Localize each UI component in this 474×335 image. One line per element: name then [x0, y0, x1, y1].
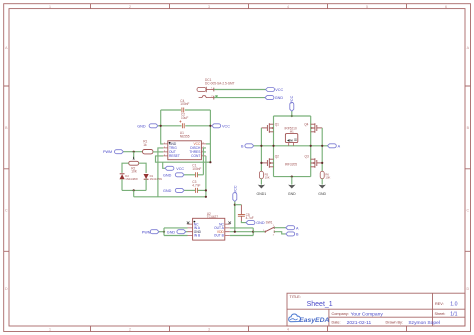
svg-text:VCC: VCC — [176, 167, 184, 171]
svg-text:3: 3 — [164, 150, 165, 152]
wire pot right lead — [139, 163, 146, 173]
svg-text:Your Company: Your Company — [351, 312, 384, 318]
svg-text:1N4148W: 1N4148W — [150, 177, 163, 181]
transistor Q1 IRF5210 — [261, 123, 279, 133]
net flag A at bridge — [327, 144, 340, 149]
svg-text:Sheet_1: Sheet_1 — [307, 301, 333, 308]
svg-text:GND: GND — [288, 192, 296, 196]
svg-text:VCC: VCC — [222, 124, 230, 128]
diode D2 1N4148W — [120, 174, 139, 181]
junction switch column — [252, 231, 254, 233]
wire bridge top rail — [274, 115, 311, 117]
svg-text:10uF: 10uF — [181, 116, 188, 120]
net flag VCC below RESET rail — [163, 162, 185, 171]
net flag GND left of C1 — [163, 173, 184, 178]
capacitor C3 — [192, 180, 200, 193]
junction VCC and RESET rail — [209, 161, 211, 163]
ground under R6 — [318, 179, 326, 196]
junction C3 CONT — [205, 189, 207, 191]
junction VCC joins VDD rail — [234, 231, 236, 233]
svg-text:Q3: Q3 — [305, 155, 309, 159]
net flag GND to U2 GND pin — [167, 230, 188, 235]
svg-text:1: 1 — [49, 328, 51, 332]
IC U1 NE555 — [163, 131, 206, 160]
wire right gate column — [321, 128, 323, 171]
svg-text:CONT: CONT — [191, 154, 200, 158]
wire VCC right vertical rail — [209, 110, 211, 162]
junction left gate mid — [260, 145, 262, 147]
net flag PWM at U2 — [142, 230, 159, 235]
wire bridge left vertical — [273, 116, 275, 177]
svg-text:4: 4 — [287, 328, 289, 332]
svg-text:1: 1 — [273, 225, 274, 227]
wire VCC branch to C5 — [235, 204, 242, 206]
wire switch throw2 to B — [274, 232, 286, 234]
svg-text:VCC: VCC — [233, 185, 237, 193]
svg-text:GND: GND — [163, 189, 172, 193]
wire diode bottom rail — [122, 189, 146, 191]
capacitor C5 — [238, 213, 254, 220]
svg-text:4.7nF: 4.7nF — [192, 184, 200, 188]
svg-text:D: D — [466, 287, 469, 291]
junction timing rail right — [205, 196, 207, 198]
ground GND1 under R5 — [257, 179, 267, 196]
svg-text:D: D — [5, 287, 8, 291]
wire switch throw1 to A — [274, 227, 286, 229]
wire PWM node to R2 wiper — [133, 152, 135, 159]
wire A flag to gate column — [322, 145, 327, 147]
wire PWM to R1 — [123, 151, 142, 153]
junction bridge bottom center — [291, 176, 293, 178]
net flag GND at DC1 — [265, 96, 283, 101]
capacitor C2 polarized — [179, 113, 188, 129]
svg-text:VCC: VCC — [275, 88, 283, 92]
svg-text:IN B: IN B — [194, 234, 200, 238]
svg-text:3: 3 — [273, 235, 274, 237]
svg-text:1N4148W: 1N4148W — [125, 177, 138, 181]
connector DC1 power jack — [197, 78, 235, 100]
wire bridge mid rail — [261, 145, 322, 147]
wire bridge bottom rail — [274, 176, 311, 178]
junction C2 rail left — [160, 125, 162, 127]
svg-text:TITLE:: TITLE: — [290, 295, 301, 299]
svg-text:2: 2 — [164, 146, 165, 148]
svg-text:1.0: 1.0 — [450, 302, 457, 308]
svg-text:GND: GND — [318, 192, 326, 196]
svg-text:2: 2 — [129, 5, 131, 9]
motor M1 — [285, 130, 297, 146]
wire C3 right to CONT vertical — [198, 189, 206, 191]
wire IN B — [164, 235, 188, 237]
svg-text:4.7uF: 4.7uF — [246, 216, 254, 220]
svg-text:Company:: Company: — [332, 312, 349, 316]
net flag A at SW1 — [286, 226, 299, 231]
net flag VCC right of C2 — [212, 124, 230, 129]
resistor R5 10K — [259, 171, 269, 179]
svg-text:IRF3205: IRF3205 — [285, 163, 297, 167]
svg-text:Drawn By:: Drawn By: — [386, 320, 404, 324]
svg-text:Szymon Sopel: Szymon Sopel — [408, 320, 440, 326]
wire R1 to OUT pin — [153, 151, 163, 153]
transistor Q2 IRF3205 — [261, 155, 279, 168]
svg-text:REV:: REV: — [435, 302, 444, 306]
svg-text:C: C — [466, 209, 469, 213]
wire OUT B — [230, 235, 253, 237]
junction right gate mid — [321, 145, 323, 147]
wire C1 right to THRES vertical — [198, 174, 204, 176]
junction VCC C5 branch — [234, 204, 236, 206]
wire D1 to bottom rail — [145, 179, 147, 191]
wire VCC flag down to VDD rail — [234, 202, 236, 232]
wire left gate column — [260, 128, 262, 171]
IC U2 TC4427 — [187, 212, 231, 240]
wire PWM to split node — [159, 231, 164, 233]
net flag VCC above U2 (vertical) — [233, 185, 238, 201]
wire TRIG pin down to timing rail — [158, 148, 163, 197]
transistor Q3 IRF3205 — [305, 155, 323, 168]
wire to switch pole — [253, 231, 265, 233]
svg-text:OUT B: OUT B — [214, 234, 224, 238]
svg-text:100nF: 100nF — [192, 167, 201, 171]
net flag GND at C5 — [246, 221, 265, 226]
wire diode rail down to timing node rail — [133, 190, 135, 196]
wire IN A — [164, 227, 188, 229]
svg-text:GND: GND — [167, 230, 176, 234]
svg-text:Q4: Q4 — [304, 123, 308, 127]
ground under bridge center — [288, 177, 296, 196]
svg-text:6: 6 — [445, 5, 447, 9]
resistor R1 — [143, 140, 154, 154]
wire DISCH THRES vertical — [203, 148, 206, 175]
junction VCC to bridge rail — [291, 115, 293, 117]
svg-text:10K: 10K — [265, 176, 270, 180]
svg-text:5: 5 — [366, 5, 368, 9]
wire B flag to gate column — [254, 145, 262, 147]
svg-text:M1: M1 — [290, 130, 294, 134]
wire OUT A to switch column — [230, 227, 253, 229]
svg-text:2021-02-11: 2021-02-11 — [347, 320, 372, 326]
wire VDD rail — [230, 231, 253, 233]
svg-text:GND1: GND1 — [257, 192, 267, 196]
net flag PWM at 555 — [103, 150, 123, 155]
svg-text:GND: GND — [163, 173, 172, 177]
wire split vertical — [163, 228, 165, 236]
svg-text:3: 3 — [208, 328, 210, 332]
svg-text:2: 2 — [129, 328, 131, 332]
wire D2 to bottom rail — [121, 179, 123, 190]
svg-text:NE555: NE555 — [180, 134, 190, 138]
net flag B at bridge — [241, 144, 254, 149]
svg-text:Q2: Q2 — [275, 155, 279, 159]
svg-text:100nF: 100nF — [180, 102, 189, 106]
wire timing node horizontal rail — [134, 196, 206, 198]
net flag GND left of C2 — [137, 124, 161, 129]
wire switch column vertical — [252, 228, 254, 236]
wire CONT pin down — [205, 156, 207, 197]
wire pot left lead — [122, 163, 129, 173]
svg-text:SW1: SW1 — [266, 220, 273, 224]
junction PWM node — [133, 151, 135, 153]
svg-text:GND: GND — [137, 124, 146, 128]
svg-text:PWM: PWM — [142, 230, 151, 234]
svg-text:GND: GND — [275, 96, 284, 100]
wire C4 top rail — [161, 109, 211, 111]
wire C5 to GND flag — [240, 216, 242, 221]
junction C2 rail right — [209, 125, 211, 127]
svg-text:PWM: PWM — [103, 150, 112, 154]
switch SW1 — [263, 220, 274, 236]
wire RESET pin to VCC rail — [156, 156, 211, 162]
capacitor C1 — [192, 164, 201, 178]
potentiometer R2 — [129, 157, 139, 174]
svg-text:Date:: Date: — [332, 320, 341, 324]
junction left gate Q2 — [260, 162, 262, 164]
wire DC1 tip to VCC — [214, 89, 266, 91]
junction diode rail — [133, 189, 135, 191]
resistor R6 10K — [320, 171, 330, 179]
svg-text:10K: 10K — [325, 176, 330, 180]
wire DC1 sleeve to GND — [214, 97, 265, 99]
EasyEDA logo — [289, 314, 330, 324]
title block — [287, 293, 465, 326]
junction Q1 drain mid — [272, 145, 274, 147]
wire C2 rail — [161, 125, 211, 127]
svg-text:Sheet:: Sheet: — [435, 312, 446, 316]
svg-text:2: 2 — [263, 230, 264, 232]
net flag VCC above H-bridge (vertical) — [290, 95, 294, 116]
wire GND flag to C1 — [184, 174, 195, 176]
junction Q4 drain mid — [310, 145, 312, 147]
svg-text:RESET: RESET — [169, 154, 180, 158]
svg-text:1k: 1k — [143, 143, 147, 147]
wire VCC pin8 tap — [206, 143, 210, 145]
svg-text:1/1: 1/1 — [450, 312, 457, 318]
svg-text:8: 8 — [203, 142, 204, 144]
svg-text:C: C — [5, 209, 8, 213]
net flag VCC at DC1 — [266, 88, 284, 93]
svg-text:1: 1 — [49, 5, 51, 9]
svg-text:GND: GND — [256, 221, 265, 225]
junction U2 input split — [163, 231, 165, 233]
junction right gate Q3 — [321, 162, 323, 164]
svg-text:EasyEDA: EasyEDA — [299, 317, 329, 324]
net flag B at SW1 — [286, 232, 299, 237]
svg-text:Q1: Q1 — [275, 123, 279, 127]
transistor Q4 IRF5210 — [304, 123, 322, 133]
net flag GND left of C3 — [163, 188, 184, 193]
wire left vertical rail to U1 GND pin — [161, 110, 164, 144]
svg-text:DC-005-SA-2.5-SMT: DC-005-SA-2.5-SMT — [205, 82, 235, 86]
wire GND flag to C3 — [184, 189, 195, 191]
svg-text:1: 1 — [164, 142, 165, 144]
svg-text:4: 4 — [287, 5, 289, 9]
wire bridge right vertical — [310, 116, 312, 177]
svg-text:10K: 10K — [131, 170, 138, 174]
diode D1 1N4148W — [144, 174, 163, 181]
svg-text:3: 3 — [208, 5, 210, 9]
svg-text:4: 4 — [164, 154, 165, 156]
capacitor C4 — [180, 99, 189, 113]
